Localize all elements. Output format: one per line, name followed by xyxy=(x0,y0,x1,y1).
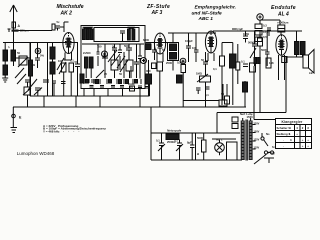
svg-text:2500: 2500 xyxy=(166,61,172,65)
svg-text:Lumophon WD468: Lumophon WD468 xyxy=(17,151,55,156)
svg-text:0,1: 0,1 xyxy=(241,60,245,64)
svg-text:0,1: 0,1 xyxy=(174,139,178,143)
svg-text:110V: 110V xyxy=(254,147,260,150)
svg-text:E: E xyxy=(19,116,22,120)
svg-text:0,5MΩ: 0,5MΩ xyxy=(177,61,186,65)
svg-text:Endstufe: Endstufe xyxy=(271,5,296,11)
svg-text:150V: 150V xyxy=(254,131,260,134)
svg-text:12,5: 12,5 xyxy=(263,30,269,34)
svg-text:50: 50 xyxy=(112,45,115,49)
svg-text:Ω: Ω xyxy=(197,152,200,156)
svg-text:100: 100 xyxy=(58,59,63,63)
svg-text:0,1: 0,1 xyxy=(156,139,160,143)
svg-text:0,1: 0,1 xyxy=(213,67,217,71)
svg-text:ZF-Stufe: ZF-Stufe xyxy=(146,4,170,10)
svg-text:1500: 1500 xyxy=(247,115,254,119)
svg-text:1MΩ: 1MΩ xyxy=(243,32,250,36)
svg-text:100: 100 xyxy=(192,46,197,50)
svg-text:50: 50 xyxy=(221,92,224,96)
svg-text:220V: 220V xyxy=(254,123,260,126)
svg-text:Mischstufe: Mischstufe xyxy=(57,4,84,10)
svg-text:500: 500 xyxy=(124,44,129,48)
svg-text:25: 25 xyxy=(104,72,107,76)
svg-text:220cm: 220cm xyxy=(20,29,29,33)
svg-text:Y = 468 kHz - - -: Y = 468 kHz - - - - xyxy=(43,130,79,134)
svg-text:ABC 1: ABC 1 xyxy=(198,16,214,22)
svg-text:50: 50 xyxy=(119,72,122,76)
svg-text:2W: 2W xyxy=(31,63,35,67)
svg-text:Schalter St: Schalter St xyxy=(277,126,292,130)
svg-text:und NF-Stufe: und NF-Stufe xyxy=(192,10,222,16)
svg-text:AF 3: AF 3 xyxy=(151,10,163,16)
svg-text:≈4000cm: ≈4000cm xyxy=(277,21,289,25)
svg-text:Ns: Ns xyxy=(266,132,270,136)
svg-text:6000: 6000 xyxy=(143,38,149,42)
svg-text:10: 10 xyxy=(130,85,133,89)
svg-text:50000: 50000 xyxy=(248,41,256,45)
svg-text:-: - xyxy=(283,144,284,148)
svg-text:125V: 125V xyxy=(254,139,260,142)
svg-text:300: 300 xyxy=(146,69,151,73)
svg-text:50: 50 xyxy=(75,60,78,64)
svg-text:5000: 5000 xyxy=(197,136,203,140)
svg-text:148: 148 xyxy=(269,61,274,65)
svg-text:5c: 5c xyxy=(57,20,60,24)
svg-text:5%: 5% xyxy=(40,54,44,58)
svg-text:0,1μF: 0,1μF xyxy=(236,27,243,31)
svg-text:Klangregler: Klangregler xyxy=(282,120,304,124)
svg-text:Si: Si xyxy=(272,145,275,149)
svg-text:AK 2: AK 2 xyxy=(60,10,73,16)
svg-text:50: 50 xyxy=(17,51,20,55)
svg-text:8μF: 8μF xyxy=(187,141,192,145)
svg-text:5000: 5000 xyxy=(261,48,267,52)
svg-text:1MΩ: 1MΩ xyxy=(196,72,203,76)
svg-text:LB: LB xyxy=(309,71,313,75)
svg-text:0,3: 0,3 xyxy=(263,24,267,28)
svg-text:-: - xyxy=(283,138,284,142)
svg-text:Pwg: Pwg xyxy=(268,151,275,155)
svg-text:50: 50 xyxy=(162,48,165,52)
svg-text:2x500: 2x500 xyxy=(83,51,91,55)
svg-text:0,5: 0,5 xyxy=(263,35,267,39)
svg-text:L: L xyxy=(9,45,11,49)
svg-text:Empfangsgleichr.: Empfangsgleichr. xyxy=(195,4,237,10)
svg-text:AZ 1: AZ 1 xyxy=(216,138,223,142)
svg-text:AL 4: AL 4 xyxy=(277,11,289,17)
svg-text:750: 750 xyxy=(97,45,102,49)
svg-text:100pF: 100pF xyxy=(185,39,193,43)
svg-text:0,1: 0,1 xyxy=(205,93,209,97)
svg-text:A: A xyxy=(18,24,21,28)
svg-text:50: 50 xyxy=(201,58,204,62)
svg-text:Netzspule: Netzspule xyxy=(167,129,182,133)
